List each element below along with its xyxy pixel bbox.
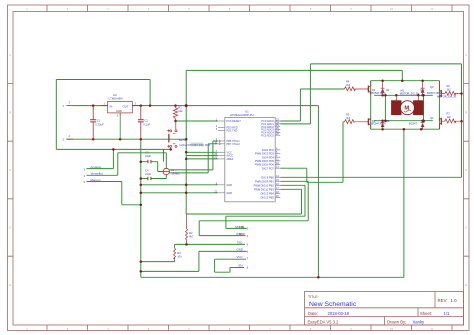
pin 17 PWM DIG11 PB3: [254, 187, 281, 192]
svg-text:100: 100: [177, 254, 182, 258]
pin 19 DIG13 PB5: [261, 195, 281, 200]
svg-text:GND: GND: [226, 183, 232, 187]
resistor R5: [343, 112, 368, 123]
svg-text:Marrom: Marrom: [91, 178, 102, 182]
H-BRIDGE: [343, 80, 462, 130]
wire AVCC row: [186, 155, 218, 157]
svg-text:B: B: [465, 111, 467, 115]
transistor Q4: [409, 118, 442, 130]
svg-text:DIG12 PB4: DIG12 PB4: [261, 192, 275, 196]
COMPONENTS: [63, 93, 211, 260]
pin 14 DIG 8 PB0: [261, 175, 280, 180]
svg-text:PB7 XTAL2: PB7 XTAL2: [226, 142, 240, 146]
svg-text:Q3: Q3: [430, 85, 434, 89]
pin 20 AVCC: [214, 153, 233, 158]
svg-text:Q4: Q4: [430, 116, 434, 120]
crystal X1: [163, 168, 180, 176]
TITLE BLOCK: [305, 292, 464, 326]
svg-text:B: B: [9, 111, 11, 115]
svg-text:C: C: [465, 168, 467, 172]
pin 10 PB7 XTAL2: [214, 141, 240, 146]
node input pin 1: [63, 100, 74, 107]
diode D2: [381, 119, 390, 129]
wire PB2 row to bottom: [226, 215, 305, 217]
wire H-bridge outer rails: [371, 81, 440, 130]
svg-text:3k2: 3k2: [447, 115, 452, 119]
svg-text:1/1: 1/1: [444, 311, 450, 316]
wire Amarelo row and staircase: [56, 149, 170, 168]
svg-text:PC6 RESET: PC6 RESET: [226, 119, 241, 123]
wire PB1 stub run: [280, 180, 308, 182]
svg-text:OUT: OUT: [123, 105, 129, 109]
wire VCC riser at x186.2 down to R2: [185, 70, 187, 214]
svg-text:X1: X1: [171, 168, 175, 172]
resistor R6: [442, 84, 462, 95]
svg-text:PWM DIG3 PD3: PWM DIG3 PD3: [255, 152, 274, 156]
diode D3: [421, 81, 434, 96]
pin 7 VCC: [216, 150, 232, 155]
resistor R1: [173, 106, 183, 121]
svg-text:10k: 10k: [178, 109, 183, 113]
pin 3 PD1 TXD: [216, 128, 238, 133]
wire PB0 long row: [280, 176, 461, 178]
pin 4 DIG2 PD2: [262, 147, 280, 152]
node VCC pin7: [237, 255, 249, 261]
pin 2 PD0 RXD: [216, 125, 238, 130]
wire AREF row: [186, 158, 218, 160]
svg-text:MOTOR_DC_5V: MOTOR_DC_5V: [400, 92, 420, 96]
svg-text:C4: C4: [145, 169, 149, 173]
pin 13 DIG7 PD7: [262, 166, 280, 171]
svg-text:C1: C1: [97, 119, 101, 123]
wire STATE drop and row: [226, 216, 247, 228]
svg-text:BC547: BC547: [409, 122, 417, 126]
svg-text:PD1 TXD: PD1 TXD: [226, 129, 237, 133]
wire PB3 stub run: [280, 188, 301, 190]
svg-text:PWM DIG10 PB2: PWM DIG10 PB2: [254, 183, 275, 187]
op-amp U1 ATMEGA328P-PU body: [225, 118, 275, 202]
svg-text:3k2: 3k2: [346, 83, 351, 87]
svg-text:A: A: [465, 53, 467, 57]
svg-text:Drawn By:: Drawn By:: [387, 319, 406, 324]
wire H-bridge collector row bottom: [374, 120, 433, 122]
svg-text:R5: R5: [346, 112, 350, 116]
svg-text:Xanky: Xanky: [413, 319, 426, 324]
node Vermelho pin4: [84, 172, 104, 178]
svg-text:2018-03-18: 2018-03-18: [328, 311, 350, 316]
svg-text:PC5 ADC5: PC5 ADC5: [261, 133, 274, 137]
wire bottom long ground return: [141, 276, 404, 278]
pin 5 PWM DIG3 PD3: [255, 151, 280, 156]
svg-text:A: A: [9, 53, 11, 57]
XTAL clock marks: [219, 140, 221, 145]
wire ground trunk below C2: [140, 139, 142, 277]
wire PB2 stub run: [280, 184, 305, 186]
svg-text:R2: R2: [189, 231, 193, 235]
resistor R3: [174, 248, 183, 259]
svg-text:GND: GND: [116, 109, 122, 113]
svg-text:D2: D2: [386, 119, 390, 123]
svg-text:R3: R3: [177, 251, 181, 255]
svg-text:0.1uF: 0.1uF: [143, 122, 150, 126]
wire rail drop x318.4 to bottom line: [317, 106, 319, 278]
wire GND pin22 horizontal: [141, 192, 218, 194]
node PB1 drop: [307, 181, 309, 221]
wire 5V top loop horizontal: [56, 79, 150, 81]
wire XTAL2 staircase to crystal bottom: [169, 144, 217, 173]
capacitor C2: [138, 106, 151, 140]
svg-text:10: 10: [390, 327, 394, 331]
wire left big loop vertical: [55, 80, 57, 150]
svg-text:Vermelho: Vermelho: [91, 172, 104, 176]
wire GND pin8 horizontal: [141, 184, 218, 186]
svg-text:11: 11: [431, 327, 434, 331]
node input pin 2: [63, 134, 74, 141]
svg-text:E: E: [9, 283, 11, 287]
svg-text:R4: R4: [346, 80, 350, 84]
svg-text:R6: R6: [447, 84, 451, 88]
wire 5V loop drop to OUT rail: [149, 80, 151, 106]
svg-text:22pF: 22pF: [145, 172, 151, 176]
pin 23 PC0 ADC0: [261, 119, 280, 124]
svg-text:KEY1: KEY1: [179, 138, 186, 142]
svg-text:buhbvb'b'8.5 KEY (NO) 3846: buhbvb'b'8.5 KEY (NO) 3846: [179, 144, 210, 147]
svg-text:GND: GND: [237, 248, 243, 252]
svg-text:C: C: [9, 168, 11, 172]
pin 25 PC2 ADC2: [261, 124, 280, 129]
transistor Q2: [368, 118, 386, 129]
pin 6 DIG4 PD4: [262, 155, 280, 160]
wire 5V rail from regulator OUT across top of MCU: [132, 105, 318, 107]
svg-text:Date:: Date:: [308, 311, 318, 316]
pin 27 PC4 ADC4: [261, 130, 280, 135]
svg-text:ATMEGA328P-PU: ATMEGA328P-PU: [230, 113, 254, 117]
wire R3 bottom to L2: [141, 260, 175, 262]
pushbutton KEY1: [167, 121, 211, 149]
svg-text:12MHZ: 12MHZ: [171, 172, 180, 176]
svg-text:R7: R7: [447, 112, 451, 116]
wire ground rail from input pin2: [66, 138, 186, 140]
capacitor C4: [145, 169, 151, 181]
svg-text:11: 11: [431, 7, 434, 11]
wire bridge feed drop: [401, 70, 403, 80]
svg-text:Amarelo: Amarelo: [91, 165, 102, 169]
svg-text:C3: C3: [145, 151, 149, 155]
svg-text:VCC: VCC: [237, 255, 243, 259]
svg-text:E: E: [465, 283, 467, 287]
svg-text:0.33uF: 0.33uF: [95, 122, 104, 126]
svg-text:D1: D1: [386, 88, 390, 92]
svg-text:Sheet:: Sheet:: [420, 311, 432, 316]
transistor Q1: [368, 81, 386, 96]
wire RXD drop and row: [199, 221, 245, 236]
node PB2 drop: [304, 185, 306, 216]
wire input pin1 to regulator IN: [73, 105, 108, 107]
wire H-bridge emitter row top: [374, 94, 433, 96]
svg-text:EasyEDA V5.3.2: EasyEDA V5.3.2: [308, 319, 340, 324]
svg-text:TXD: TXD: [237, 241, 243, 245]
wire motor side verticals: [385, 95, 423, 120]
svg-text:3k2: 3k2: [346, 116, 351, 120]
regulator U2: [101, 93, 141, 139]
svg-text:BC547,NPN: BC547,NPN: [427, 91, 441, 95]
pin 9 PB6 XTAL1: [216, 139, 241, 144]
node STATE pin3: [235, 225, 249, 231]
resistor R2: [186, 214, 194, 244]
svg-text:TXD: TXD: [239, 225, 244, 229]
svg-text:10: 10: [390, 7, 394, 11]
wire XTAL1 staircase to crystal right: [169, 141, 217, 170]
NET LABELS bottom: [84, 165, 249, 270]
wire TXD row to R2 bottom: [187, 243, 246, 245]
pin 26 PC3 ADC3: [261, 127, 280, 132]
svg-text:3k2: 3k2: [447, 87, 452, 91]
svg-text:PWM DIG5 PD5: PWM DIG5 PD5: [255, 159, 274, 163]
pin 15 PWM DIG9 PB1: [255, 179, 280, 184]
wire VCC label row: [215, 259, 246, 272]
svg-text:EN: EN: [239, 264, 243, 268]
node Amarelo pin3: [84, 165, 102, 171]
svg-text:DIG 8 PB0: DIG 8 PB0: [261, 175, 274, 179]
wire R2 bottom to R3 top: [175, 244, 187, 248]
node EN pin8: [239, 264, 249, 270]
svg-text:D: D: [9, 226, 11, 230]
pin 11 PWM DIG5 PD5: [255, 158, 280, 163]
svg-text:MOTOR_GH_XL: MOTOR_GH_XL: [437, 94, 457, 98]
wire Marrom row dropping to R3 row: [87, 182, 141, 205]
transistor Q3: [421, 81, 442, 97]
resistor R4: [345, 80, 368, 91]
svg-text:AREF: AREF: [226, 157, 233, 161]
node RXD pin4: [237, 232, 249, 238]
svg-text:New Schematic: New Schematic: [309, 301, 357, 308]
pin 1 PC6 RESET: [216, 119, 241, 124]
svg-text:GND: GND: [226, 191, 232, 195]
wire VCC row: [186, 151, 218, 153]
pin 12 PWM DIG6 PD6: [255, 162, 280, 167]
MCU: [214, 110, 280, 202]
wire DIG7 to R5: [280, 122, 343, 183]
wire C4 row: [141, 178, 167, 180]
pin 18 DIG12 PB4: [261, 191, 281, 196]
svg-text:DIG4 PD4: DIG4 PD4: [262, 155, 274, 159]
svg-text:TITLE:: TITLE:: [308, 295, 319, 299]
svg-text:M: M: [404, 106, 409, 112]
node TXD pin5: [237, 241, 249, 247]
node Marrom pin5: [84, 178, 102, 184]
wire RESET row: [176, 120, 218, 122]
wire EN label row: [230, 267, 244, 269]
pin 24 PC1 ADC1: [261, 121, 280, 126]
svg-text:4k7: 4k7: [189, 234, 194, 238]
svg-text:D: D: [465, 226, 467, 230]
motor M1: [392, 89, 458, 115]
svg-text:1.0: 1.0: [451, 298, 458, 303]
svg-text:DIG13 PB5: DIG13 PB5: [261, 196, 275, 200]
svg-text:L7805ABV: L7805ABV: [109, 97, 123, 101]
wire PB1 row lower: [199, 220, 308, 222]
pin 22 GND: [214, 190, 232, 195]
wire ADC1 to R6 riser: [280, 64, 461, 177]
wire R2 top to PB3 row: [187, 213, 302, 215]
wire GND label row: [141, 251, 247, 271]
capacitor C3: [145, 151, 151, 164]
svg-text:REV:: REV:: [438, 298, 448, 303]
pin 28 PC5 ADC5: [261, 133, 280, 138]
wire 5V upper rail to bridge feed: [186, 69, 402, 71]
svg-text:IN: IN: [110, 105, 113, 109]
svg-text:DIG2 PD2: DIG2 PD2: [262, 148, 274, 152]
wire C3 row to crystal left: [141, 162, 163, 172]
svg-text:RXD: RXD: [239, 232, 245, 236]
svg-text:PWM DIG6 PD6: PWM DIG6 PD6: [255, 163, 274, 167]
svg-text:DIG7 PD7: DIG7 PD7: [262, 166, 274, 170]
pin 16 PWM DIG10 PB2: [254, 183, 281, 188]
diode D1: [381, 81, 390, 96]
wire crystal bottom to C4 row: [165, 175, 167, 179]
node PB3 drop: [301, 189, 303, 214]
capacitor C1: [90, 106, 104, 140]
wire ADC0 to R4: [280, 89, 344, 121]
wire bridge bottom return drop: [403, 129, 405, 277]
node GND pin6: [237, 248, 249, 254]
svg-text:PWM DIG9 PB1: PWM DIG9 PB1: [255, 179, 274, 183]
svg-text:22pF: 22pF: [145, 154, 151, 158]
svg-text:R1: R1: [178, 106, 182, 110]
wire Vermelho row and staircase: [87, 153, 167, 176]
svg-text:C2: C2: [144, 119, 148, 123]
pin 8 GND: [216, 182, 232, 187]
pin 21 AREF: [214, 156, 233, 161]
resistor R7: [442, 112, 462, 123]
svg-text:PWM DIG11 PB3: PWM DIG11 PB3: [254, 187, 275, 191]
diode D4: [421, 116, 434, 129]
